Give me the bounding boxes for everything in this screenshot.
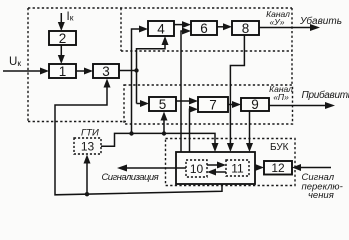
wire clock bus up to block 5 bottom input	[163, 118, 165, 134]
svg-text:1: 1	[59, 64, 67, 79]
block 10 (dashed)	[186, 160, 207, 177]
block 7	[198, 97, 228, 112]
junction dot clock bus / block 4 riser	[129, 131, 133, 135]
arrowhead block 8 line into БУК box	[227, 143, 234, 152]
wire clock riser to block 4 left input	[132, 29, 142, 134]
wire block 6 to block 8	[217, 26, 226, 28]
wire node A right into block 5 left input	[137, 103, 142, 105]
svg-text:Сигнализация: Сигнализация	[102, 172, 159, 183]
svg-text:чения: чения	[308, 190, 334, 200]
arrowhead Убавить	[310, 24, 320, 31]
svg-text:«П»: «П»	[273, 92, 289, 102]
wire block 8 output Убавить	[259, 27, 312, 29]
wire block 11 to block 12	[255, 167, 258, 169]
block 1	[49, 64, 76, 78]
wire block 5 to block 7	[176, 100, 192, 102]
arrowhead into block 5 left	[140, 100, 149, 107]
block 3	[93, 64, 119, 78]
junction dot clock bus / block 5 riser	[162, 131, 166, 135]
dashed outer box (measuring unit) top edge	[28, 7, 292, 9]
arrowhead block 11 into block 10	[207, 169, 216, 176]
arrowhead block 9 line into БУК box	[246, 143, 253, 152]
wire block 2 to block 1	[60, 45, 62, 58]
svg-text:9: 9	[251, 97, 259, 112]
wire block 9 down to БУК box	[249, 111, 251, 145]
block 9	[241, 98, 269, 111]
dashed box Канал У bottom edge	[121, 50, 292, 52]
dashed box БУК	[166, 139, 296, 186]
arrowhead Сигнализация pointing left	[117, 165, 127, 172]
arrowhead clock into БУК box	[212, 143, 219, 152]
svg-text:8: 8	[242, 21, 250, 36]
arrowhead into block 4 bottom	[162, 36, 169, 45]
wire block 3 to node A	[119, 70, 137, 72]
solid inner box of БУК (around 10 and 11)	[176, 152, 255, 184]
junction dot feedback / block 13 riser	[85, 192, 89, 196]
wire feedback from БУК box bottom to block 3 bottom input	[55, 87, 222, 195]
wire block 9 output Прибавить	[269, 105, 327, 107]
svg-text:12: 12	[271, 161, 285, 175]
node A junction dot	[134, 68, 138, 72]
dashed box Канал У right edge and connector	[291, 8, 293, 85]
block 2	[49, 31, 76, 45]
block 13 ГТИ (dashed)	[74, 138, 101, 154]
wire Uк input to block 1	[3, 70, 42, 72]
svg-text:Iк: Iк	[67, 11, 74, 23]
arrowhead into block 7 upper input	[189, 98, 198, 105]
wire ГТИ output and clock bus	[101, 133, 215, 146]
svg-text:7: 7	[209, 97, 217, 112]
wire from feedback line up to block 13 input	[86, 161, 88, 195]
wire node A up to block 4 bottom input	[137, 44, 166, 104]
svg-text:Убавить: Убавить	[299, 15, 342, 27]
svg-text:Прибавить: Прибавить	[302, 89, 349, 101]
svg-text:ГТИ: ГТИ	[81, 128, 99, 139]
arrowhead Прибавить	[325, 102, 335, 109]
wire block 7 to block 9	[228, 104, 235, 106]
svg-text:4: 4	[157, 21, 165, 36]
block 12	[264, 161, 292, 175]
svg-text:БУК: БУК	[270, 142, 289, 153]
wire block 11 back to block 10	[214, 171, 227, 173]
arrowhead block 4 into block 6	[182, 21, 191, 28]
arrowhead into block 9	[232, 101, 241, 108]
wire block 1 to block 3	[76, 70, 87, 72]
wire block 8 down to БУК box	[230, 35, 244, 145]
svg-text:«У»: «У»	[270, 17, 285, 27]
wire Сигнализация output	[126, 167, 186, 169]
arrowhead into block 3	[84, 68, 93, 75]
arrowhead riser into block 6 lower input	[182, 28, 191, 35]
arrowhead into block 7 lower input	[189, 106, 198, 113]
dashed outer box left edge	[27, 8, 29, 122]
block 6	[191, 21, 217, 35]
arrowhead into block 5 bottom	[161, 112, 168, 121]
arrowhead block 2 into block 1	[58, 55, 65, 64]
wire Iк input down to block 2	[60, 13, 62, 25]
block 8	[232, 21, 259, 35]
wire riser from БУК box to block 7 lower input	[190, 109, 193, 152]
svg-text:2: 2	[59, 31, 67, 46]
wire Сигнал переключения input to block 12	[300, 167, 332, 169]
svg-text:Uк: Uк	[9, 56, 21, 68]
wire block 4 to block 6	[174, 24, 184, 26]
arrowhead into block 1	[40, 68, 49, 75]
arrowhead into block 13 bottom	[84, 155, 91, 164]
block 11 (dashed)	[226, 160, 249, 176]
wire riser from БУК box to block 6 lower input	[181, 31, 184, 152]
svg-text:10: 10	[190, 162, 204, 176]
arrowhead into block 12 left	[255, 164, 264, 171]
arrowhead feedback into block 3 bottom	[104, 79, 111, 88]
arrowhead Сигнал переключения into block 12 right	[292, 164, 301, 171]
dashed box Канал П	[124, 85, 293, 124]
block 5	[149, 97, 176, 111]
arrowhead into block 4 left	[139, 26, 148, 33]
svg-text:3: 3	[102, 64, 110, 79]
arrowhead Iк into block 2	[58, 22, 65, 31]
svg-text:5: 5	[159, 97, 167, 112]
wire block 10 to block 11	[207, 164, 220, 166]
dashed outer box bottom edge	[28, 121, 126, 123]
arrowhead into block 8	[223, 23, 232, 30]
svg-text:13: 13	[81, 139, 95, 153]
svg-text:6: 6	[200, 21, 208, 36]
svg-text:11: 11	[231, 161, 244, 175]
dashed box Канал У left edge	[120, 8, 122, 51]
arrowhead block 10 into block 11	[217, 162, 226, 169]
block 4	[148, 21, 174, 36]
